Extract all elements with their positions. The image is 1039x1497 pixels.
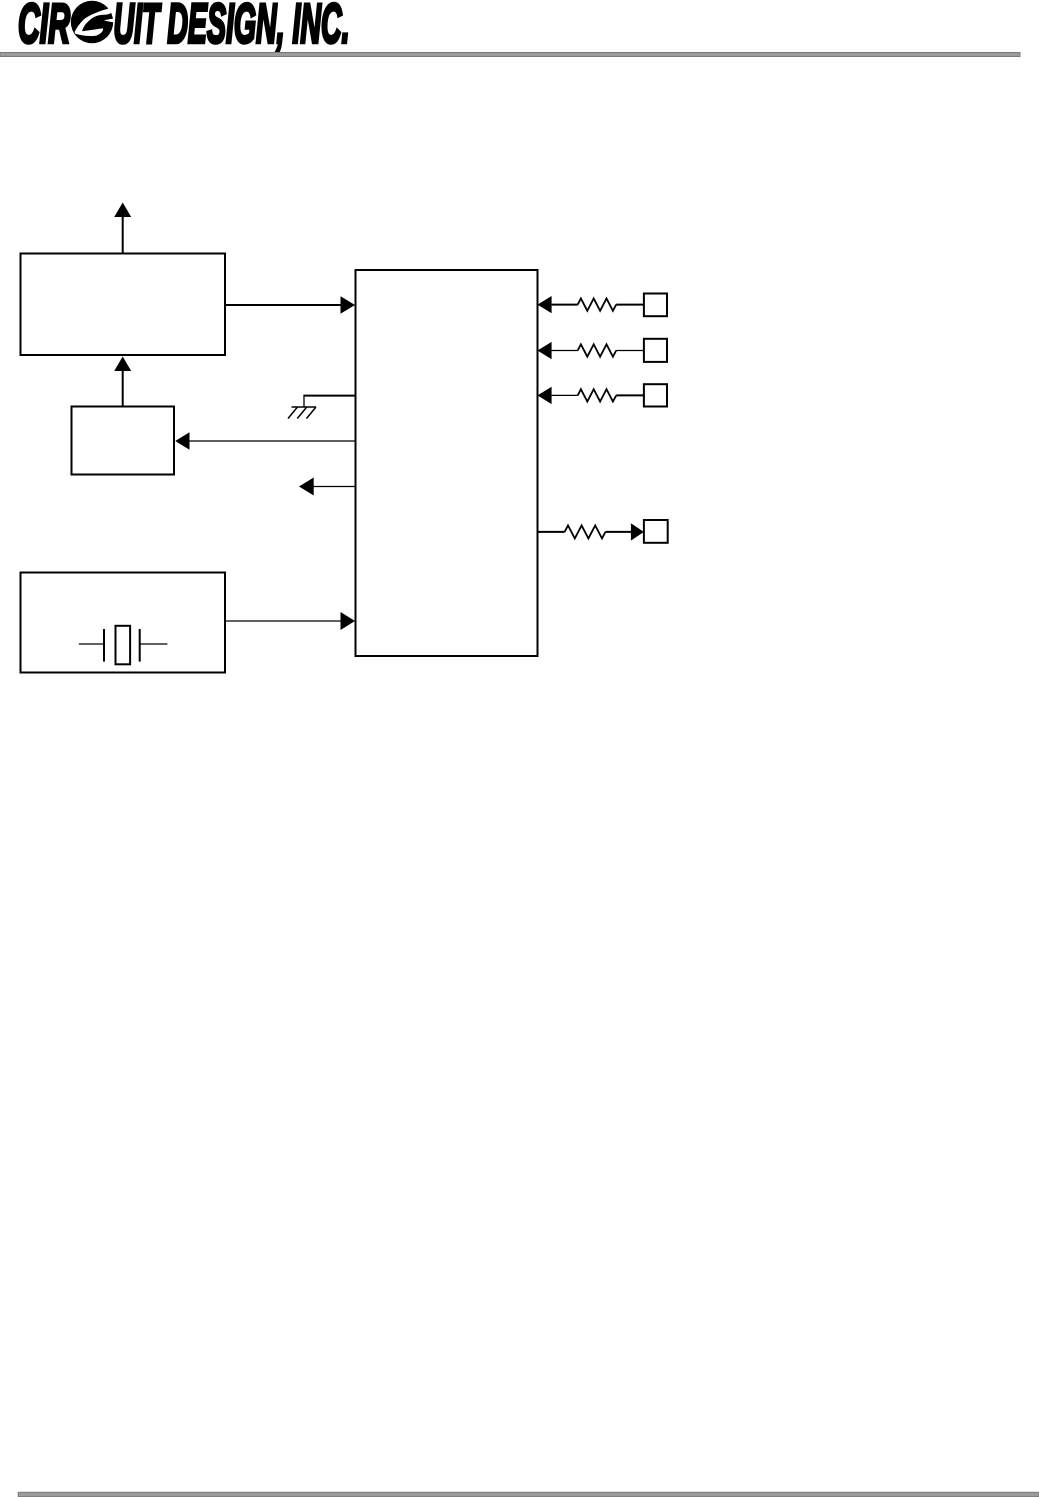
box A top-left	[21, 254, 226, 356]
ground wire	[304, 395, 356, 407]
pin 2 pad	[644, 339, 667, 362]
logo text CIRCUIT DESIGN, INC.	[18, 0, 350, 54]
footer rule	[18, 1492, 1039, 1496]
pin 1 pad	[644, 294, 667, 317]
ground	[288, 407, 316, 419]
header rule	[0, 53, 1020, 57]
arrow up from box A	[114, 203, 131, 254]
pin 3 pad	[644, 384, 667, 406]
wire D to B	[175, 432, 355, 449]
pin 2 input with resistor	[538, 342, 644, 359]
logo emblem disc	[71, 1, 115, 43]
box C crystal oscillator	[21, 573, 226, 673]
short arrow out of D	[299, 478, 355, 496]
wire A to D	[225, 296, 355, 313]
box B small	[72, 407, 175, 475]
wire C to D	[225, 612, 355, 630]
pin 4 output with resistor	[538, 523, 644, 540]
svg-text:CIR: CIR	[18, 0, 70, 54]
box D main IC	[356, 270, 538, 656]
pin 4 pad	[644, 520, 668, 543]
crystal symbol	[79, 626, 167, 665]
arrow B to A	[114, 357, 131, 407]
pin 3 input with resistor	[538, 387, 644, 404]
svg-text:UIT DESIGN, INC.: UIT DESIGN, INC.	[114, 0, 350, 54]
pin 1 input with resistor	[538, 296, 644, 313]
